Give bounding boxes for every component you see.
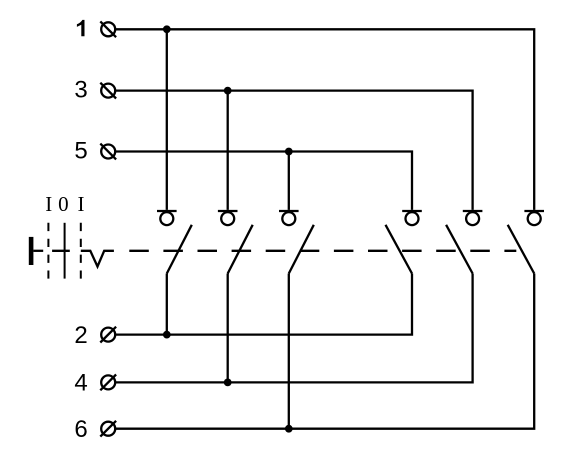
- svg-text:4: 4: [74, 370, 87, 397]
- svg-text:0: 0: [58, 192, 69, 216]
- svg-text:2: 2: [74, 322, 87, 349]
- svg-text:6: 6: [74, 416, 87, 443]
- svg-text:I: I: [45, 192, 52, 216]
- svg-text:5: 5: [74, 138, 87, 165]
- svg-text:3: 3: [74, 77, 87, 104]
- svg-text:I: I: [78, 192, 85, 216]
